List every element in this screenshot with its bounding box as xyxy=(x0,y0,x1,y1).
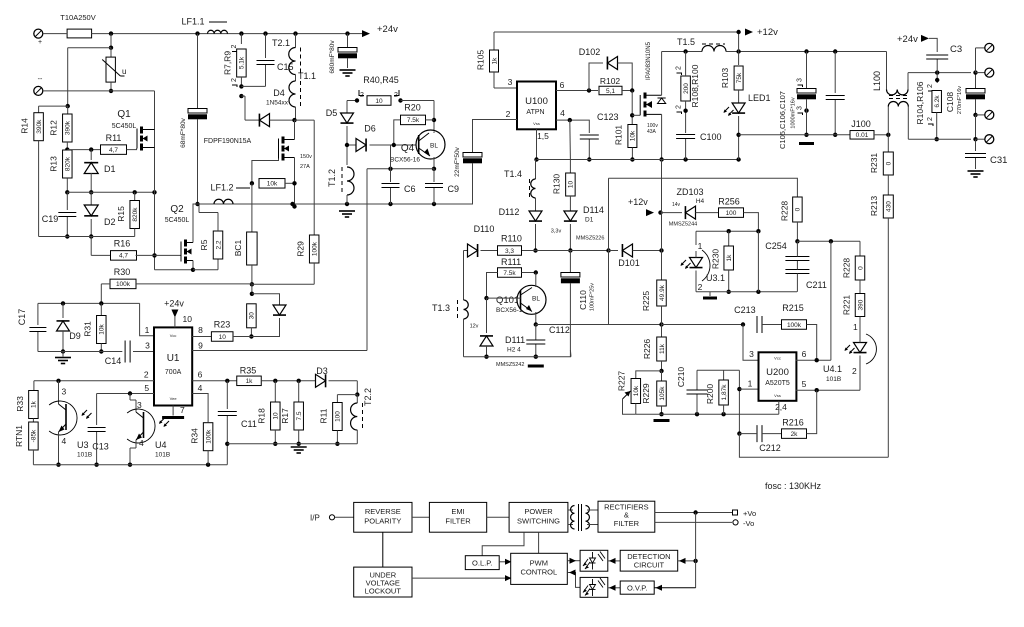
svg-text:R20: R20 xyxy=(404,103,421,113)
svg-text:12v: 12v xyxy=(470,324,479,330)
block DETECTION CIRCUIT xyxy=(620,550,678,571)
svg-text:RTN1: RTN1 xyxy=(14,425,24,447)
wire OLP to PWM xyxy=(499,561,505,563)
svg-text:2: 2 xyxy=(927,84,934,88)
wire tap column xyxy=(695,513,697,588)
svg-text:270mF*16v: 270mF*16v xyxy=(957,86,963,114)
svg-text:R256: R256 xyxy=(718,197,740,207)
wire pin3 row xyxy=(38,351,122,353)
resistor R31 10k xyxy=(100,303,102,316)
svg-text:C112: C112 xyxy=(549,325,570,335)
svg-text:C14: C14 xyxy=(105,356,122,366)
wire row 231 xyxy=(696,230,758,232)
svg-text:R225: R225 xyxy=(641,291,651,312)
svg-text:C9: C9 xyxy=(448,184,460,194)
svg-text:30: 30 xyxy=(249,312,256,320)
svg-text:R33: R33 xyxy=(15,396,25,412)
svg-text:14v: 14v xyxy=(672,202,681,208)
svg-text:1N54xx: 1N54xx xyxy=(266,100,289,107)
capacitor C11 xyxy=(226,381,228,409)
opto block 1 xyxy=(580,550,608,571)
svg-text:U4: U4 xyxy=(155,440,167,450)
resistor R103 75k xyxy=(738,52,740,66)
svg-text:C3: C3 xyxy=(950,44,962,55)
svg-text:R110: R110 xyxy=(501,234,522,244)
resistor R105 1k xyxy=(493,32,495,50)
svg-text:2: 2 xyxy=(676,105,683,109)
svg-text:LF1.2: LF1.2 xyxy=(210,183,233,193)
terminal out 3 xyxy=(976,114,985,116)
wire fuse node branch xyxy=(110,34,112,48)
wire opto2 to OVP xyxy=(608,587,620,589)
svg-text:68mF*80v: 68mF*80v xyxy=(180,117,187,147)
wire secondary rail y159 xyxy=(537,159,739,161)
svg-text:R7,R9: R7,R9 xyxy=(223,51,233,75)
svg-text:100mF*25v: 100mF*25v xyxy=(590,283,596,311)
svg-text:3: 3 xyxy=(797,78,804,82)
ground under C105 xyxy=(799,142,814,145)
svg-text:O.L.P.: O.L.P. xyxy=(472,559,492,568)
wire PWM to opto2 jog xyxy=(567,573,580,588)
resistor R14 390k xyxy=(34,113,44,141)
svg-text:D102: D102 xyxy=(579,47,601,57)
svg-text:Vss: Vss xyxy=(774,393,781,398)
wire IP to reverse polarity xyxy=(335,516,354,518)
svg-text:-Vo: -Vo xyxy=(743,519,754,528)
svg-text:R18: R18 xyxy=(257,408,267,424)
resistor R12 390k xyxy=(67,106,69,114)
wire gate node xyxy=(631,91,633,126)
ground below T1.2 xyxy=(339,210,355,212)
svg-text:I/P: I/P xyxy=(310,514,320,523)
svg-text:10: 10 xyxy=(183,314,193,324)
svg-text:Vcc: Vcc xyxy=(170,333,177,338)
svg-text:POWER: POWER xyxy=(524,507,553,516)
wire +12v node column xyxy=(738,32,740,52)
wire row +24v feed xyxy=(38,302,140,304)
block PWM CONTROL xyxy=(511,553,568,584)
svg-text:1: 1 xyxy=(698,241,703,251)
wire R11 to Q1 gate xyxy=(127,148,137,149)
svg-text:R213: R213 xyxy=(869,196,879,217)
svg-text:10k: 10k xyxy=(99,324,106,335)
block OVP xyxy=(620,581,654,594)
wire Q4 emitter node row xyxy=(367,168,434,170)
rail primary ground y204 xyxy=(193,203,474,205)
svg-text:5.1k: 5.1k xyxy=(239,56,246,69)
svg-text:7: 7 xyxy=(180,405,185,415)
block POWER SWITCHING xyxy=(509,502,568,532)
wire column 758 down xyxy=(757,231,759,292)
svg-text:R31: R31 xyxy=(83,321,93,337)
svg-text:FILTER: FILTER xyxy=(445,517,471,526)
svg-text:5: 5 xyxy=(144,383,149,393)
svg-text:3: 3 xyxy=(62,387,67,397)
svg-text:3: 3 xyxy=(797,106,804,110)
wire detection to tap column xyxy=(678,560,696,562)
svg-text:5,1: 5,1 xyxy=(606,88,615,95)
svg-text:ZD103: ZD103 xyxy=(676,187,703,197)
wire pin2,4 U200 xyxy=(778,401,780,414)
svg-text:100k: 100k xyxy=(312,241,319,256)
capacitor 68mF*80v electrolytic xyxy=(197,34,199,110)
wire OVP to tap column xyxy=(654,587,695,589)
svg-text:3: 3 xyxy=(508,77,513,87)
resistor R17 7,5 xyxy=(298,381,300,402)
wire IPA drain to T1.5 xyxy=(661,52,663,96)
svg-text:9: 9 xyxy=(198,341,203,351)
svg-text:R111: R111 xyxy=(501,257,521,267)
svg-text:2k: 2k xyxy=(791,431,799,438)
block RECTIFIERS FILTER xyxy=(598,501,655,532)
svg-text:390k: 390k xyxy=(36,119,43,134)
wire node row2 xyxy=(67,191,155,193)
svg-text:+: + xyxy=(38,39,42,46)
svg-text:6.2k: 6.2k xyxy=(934,95,941,108)
resistor R5 2,2 xyxy=(193,269,218,271)
svg-text:R104,R106: R104,R106 xyxy=(915,81,925,124)
svg-text:43A: 43A xyxy=(647,129,657,135)
wire row 370 to pin1 xyxy=(697,369,739,371)
svg-text:C17: C17 xyxy=(17,309,27,326)
svg-text:C13: C13 xyxy=(92,442,109,452)
svg-text:R103: R103 xyxy=(720,68,730,89)
svg-text:6: 6 xyxy=(198,370,203,380)
svg-text:R101: R101 xyxy=(614,125,624,146)
svg-text:7.5k: 7.5k xyxy=(407,117,420,124)
svg-text:fosc : 130KHz: fosc : 130KHz xyxy=(765,481,822,491)
svg-text:D111: D111 xyxy=(505,335,525,345)
svg-text:C123: C123 xyxy=(597,112,619,122)
terminal + input xyxy=(34,29,43,38)
wire node row3 xyxy=(39,236,135,238)
svg-text:10: 10 xyxy=(375,98,383,105)
svg-text:D112: D112 xyxy=(499,207,520,217)
svg-text:D101: D101 xyxy=(618,258,640,268)
svg-text:R226: R226 xyxy=(642,339,652,360)
svg-text:IPA083N10N5: IPA083N10N5 xyxy=(646,41,652,80)
svg-text:2: 2 xyxy=(231,78,238,82)
svg-text:MMSZ5242: MMSZ5242 xyxy=(496,362,524,368)
svg-text:PWM: PWM xyxy=(530,559,548,568)
resistor 10k gate xyxy=(250,181,254,185)
svg-text:R200: R200 xyxy=(705,384,715,405)
svg-text:D4: D4 xyxy=(273,88,285,98)
ground mid rail xyxy=(291,446,307,448)
resistor R15 820k xyxy=(134,192,136,202)
svg-text:T10A250V: T10A250V xyxy=(60,13,95,22)
svg-text:D6: D6 xyxy=(364,124,376,134)
svg-text:4,7: 4,7 xyxy=(119,253,128,260)
svg-text:C213: C213 xyxy=(734,305,756,315)
resistor R33 1k xyxy=(33,381,35,391)
capacitor 680mF*80v xyxy=(347,34,349,48)
wire PS to PWM xyxy=(538,532,540,553)
svg-text:--: -- xyxy=(38,76,43,83)
resistor R34 100k xyxy=(203,423,213,451)
svg-text:L100: L100 xyxy=(872,71,882,91)
svg-text:-85k: -85k xyxy=(31,429,38,442)
capacitor filter plain xyxy=(834,52,836,94)
svg-text:C11: C11 xyxy=(241,419,257,429)
wire bottom row 414 xyxy=(636,413,779,415)
svg-text:+12v: +12v xyxy=(628,197,648,207)
svg-text:D5: D5 xyxy=(326,108,338,118)
svg-text:4: 4 xyxy=(198,383,203,393)
svg-text:R227: R227 xyxy=(617,371,627,392)
svg-text:Q1: Q1 xyxy=(117,109,131,120)
svg-text:C212: C212 xyxy=(759,443,781,453)
wire row 250 connections xyxy=(521,250,535,252)
diode D9 xyxy=(62,303,64,318)
svg-text:1,5: 1,5 xyxy=(537,131,549,141)
svg-text:105k: 105k xyxy=(659,386,666,401)
ground C112 xyxy=(528,365,544,368)
svg-text:ATPN: ATPN xyxy=(526,109,544,116)
svg-text:C254: C254 xyxy=(765,241,787,251)
svg-text:1: 1 xyxy=(853,322,858,332)
wire row 178 to R228 xyxy=(609,178,798,197)
capacitor C31 xyxy=(975,139,977,151)
svg-text:D114: D114 xyxy=(583,205,604,215)
svg-text:D1: D1 xyxy=(585,217,594,224)
svg-text:0.01: 0.01 xyxy=(856,132,869,139)
wire column x608 down xyxy=(608,251,610,325)
svg-text:5C450L: 5C450L xyxy=(112,123,137,130)
resistor R11 100 xyxy=(337,394,357,396)
svg-text:820k: 820k xyxy=(65,156,72,171)
capacitor C14 xyxy=(124,341,126,363)
svg-text:0: 0 xyxy=(795,207,802,211)
terminal - input xyxy=(34,86,43,95)
wire UVLO to PWM xyxy=(412,577,506,579)
terminal -Vo xyxy=(733,520,738,525)
capacitor 22mF*50v xyxy=(473,120,518,153)
svg-text:100k: 100k xyxy=(205,429,212,444)
wire top rail +24v xyxy=(43,33,67,35)
svg-text:10k: 10k xyxy=(267,181,278,188)
svg-text:R130: R130 xyxy=(552,174,562,195)
wire row 292 xyxy=(696,291,797,293)
svg-text:D9: D9 xyxy=(69,331,81,341)
block REVERSE POLARITY xyxy=(354,502,412,532)
svg-text:T2.1: T2.1 xyxy=(272,38,290,48)
resistor R18 10 xyxy=(274,381,276,402)
svg-text:2: 2 xyxy=(676,66,683,70)
svg-text:BCX56-16: BCX56-16 xyxy=(390,157,420,164)
svg-text:430: 430 xyxy=(886,201,893,212)
svg-text:1k: 1k xyxy=(491,57,498,65)
svg-text:2,4: 2,4 xyxy=(775,402,787,412)
wire pin1 xyxy=(140,303,154,335)
varistor u xyxy=(110,48,112,57)
diode D1 xyxy=(90,150,92,160)
resistor 30 below BC1 xyxy=(251,284,253,294)
wire minus rail xyxy=(43,90,155,92)
svg-text:3,3v: 3,3v xyxy=(551,229,562,235)
wire EMI to PS xyxy=(487,516,509,518)
svg-text:2: 2 xyxy=(144,370,149,380)
capacitor C211 xyxy=(785,269,809,271)
svg-text:R14: R14 xyxy=(20,118,30,134)
wire +12v top xyxy=(494,31,739,33)
svg-text:BL: BL xyxy=(430,143,438,150)
resistor R11 4,7 xyxy=(101,145,127,155)
block UNDER VOLTAGE LOCKOUT xyxy=(354,567,412,597)
resistor RTN1 ~85k xyxy=(32,419,34,423)
svg-text:3: 3 xyxy=(749,349,754,359)
svg-text:LOCKOUT: LOCKOUT xyxy=(365,587,402,596)
block OLP xyxy=(465,556,499,570)
ground U3.1 xyxy=(709,292,711,296)
svg-text:1k: 1k xyxy=(726,254,733,262)
svg-text:R102: R102 xyxy=(600,76,621,86)
svg-text:R13: R13 xyxy=(49,156,59,172)
svg-text:22mF*50v: 22mF*50v xyxy=(454,146,461,176)
svg-text:150v: 150v xyxy=(300,154,312,160)
svg-text:8: 8 xyxy=(198,325,203,335)
svg-text:C108: C108 xyxy=(945,92,955,113)
transformer block symbol xyxy=(568,509,573,511)
wire IPA source to rail xyxy=(661,114,663,159)
svg-text:T2.2: T2.2 xyxy=(363,388,373,406)
svg-text:1: 1 xyxy=(145,325,150,335)
wire bottom row mid xyxy=(464,356,572,358)
diode parallel 30 xyxy=(252,294,280,305)
wire output bottom rail xyxy=(908,138,971,140)
svg-text:820k: 820k xyxy=(132,207,139,222)
svg-text:LED1: LED1 xyxy=(748,93,771,103)
svg-text:27A: 27A xyxy=(300,164,310,170)
svg-text:101B: 101B xyxy=(77,452,92,459)
svg-text:u: u xyxy=(122,67,126,76)
wire output terminal column xyxy=(975,48,977,73)
transformer T2.2 winding xyxy=(356,381,358,395)
svg-text:100: 100 xyxy=(726,210,737,217)
svg-text:101B: 101B xyxy=(826,376,841,383)
svg-text:T1.4: T1.4 xyxy=(504,169,522,179)
svg-text:C19: C19 xyxy=(42,214,59,224)
svg-text:R15: R15 xyxy=(116,206,126,222)
svg-text:T1.2: T1.2 xyxy=(327,169,337,187)
svg-text:3: 3 xyxy=(137,400,142,410)
svg-text:390k: 390k xyxy=(65,120,72,135)
svg-text:Q4: Q4 xyxy=(401,143,415,154)
IC U200 A520T5 xyxy=(759,352,797,401)
svg-text:U4.1: U4.1 xyxy=(823,364,842,374)
svg-text:+24v: +24v xyxy=(897,34,918,45)
svg-text:10: 10 xyxy=(219,334,227,341)
resistor R231 0 xyxy=(887,135,889,152)
ground pin7 xyxy=(172,406,174,416)
svg-text:100k: 100k xyxy=(787,322,802,329)
svg-text:CONTROL: CONTROL xyxy=(520,568,557,577)
svg-text:R11: R11 xyxy=(319,408,329,423)
svg-text:1000mF*16v: 1000mF*16v xyxy=(791,97,797,128)
wire bottom return xyxy=(739,434,888,458)
svg-text:1k: 1k xyxy=(31,400,38,408)
svg-text:R12: R12 xyxy=(49,120,59,136)
svg-text:D1: D1 xyxy=(104,164,116,174)
svg-text:LF1.1: LF1.1 xyxy=(181,17,204,27)
wire RP to UVLO xyxy=(382,532,384,567)
svg-text:C105,C106,C107: C105,C106,C107 xyxy=(778,91,787,149)
svg-text:H2 4: H2 4 xyxy=(507,347,521,354)
IC U1 700A xyxy=(154,327,192,405)
svg-text:R17: R17 xyxy=(280,408,290,424)
svg-text:C6: C6 xyxy=(404,184,416,194)
svg-text:R228: R228 xyxy=(842,258,852,279)
resistor R13 820k xyxy=(63,150,73,178)
wire emitter row to R225 xyxy=(536,324,662,326)
svg-text:T1.3: T1.3 xyxy=(432,303,450,313)
wire T column to D4 node xyxy=(295,119,315,121)
svg-text:R231: R231 xyxy=(869,153,879,174)
wire node row1 xyxy=(67,149,101,151)
svg-text:2: 2 xyxy=(927,117,934,121)
svg-text:R16: R16 xyxy=(114,239,131,249)
svg-text:1,87k: 1,87k xyxy=(721,384,728,401)
wire row 241 to R228 lower xyxy=(797,240,860,242)
svg-text:2: 2 xyxy=(506,109,511,119)
svg-text:4: 4 xyxy=(560,108,565,118)
svg-text:R105: R105 xyxy=(476,50,486,71)
svg-text:R34: R34 xyxy=(190,428,200,444)
svg-text:5: 5 xyxy=(802,379,807,389)
svg-text:0: 0 xyxy=(886,161,893,165)
capacitor BC1 xyxy=(251,183,253,232)
svg-text:+12v: +12v xyxy=(757,27,778,38)
svg-text:390: 390 xyxy=(857,299,864,310)
svg-text:100k: 100k xyxy=(116,281,131,288)
resistor R213 430 xyxy=(883,195,893,218)
svg-text:1k: 1k xyxy=(246,378,254,385)
+24v arrow label xyxy=(362,30,370,37)
resistor R101 10k xyxy=(628,125,637,148)
svg-text:O.V.P.: O.V.P. xyxy=(627,584,647,593)
svg-text:BL: BL xyxy=(532,296,540,303)
wire bottom rail left xyxy=(33,464,227,466)
svg-text:Q2: Q2 xyxy=(170,204,184,215)
svg-text:C211: C211 xyxy=(806,280,827,290)
svg-text:4: 4 xyxy=(62,436,67,446)
svg-text:R228: R228 xyxy=(780,201,790,222)
capacitor C13 xyxy=(96,394,98,426)
svg-text:3: 3 xyxy=(145,341,150,351)
svg-text:T1.1: T1.1 xyxy=(298,71,316,81)
svg-text:FILTER: FILTER xyxy=(614,519,640,528)
resistor R29 100k xyxy=(309,235,319,263)
svg-text:1: 1 xyxy=(748,379,753,389)
wire PWM to opto1 xyxy=(567,560,580,562)
svg-text:Vee: Vee xyxy=(170,396,178,401)
svg-text:10k: 10k xyxy=(633,385,640,396)
svg-text:U200: U200 xyxy=(766,367,789,378)
svg-text:11k: 11k xyxy=(659,343,666,354)
terminal out 4 xyxy=(976,138,985,140)
svg-text:7.5: 7.5 xyxy=(296,411,303,420)
ground under D9 xyxy=(62,352,64,357)
svg-text:5C450L: 5C450L xyxy=(165,217,190,224)
svg-text:49.9k: 49.9k xyxy=(659,284,666,301)
wire R14 feed row xyxy=(39,105,68,107)
wire U100 bottom pins xyxy=(536,129,538,159)
svg-text:U3: U3 xyxy=(77,440,89,450)
opto block 2 xyxy=(580,577,608,597)
svg-text:2: 2 xyxy=(231,44,238,48)
svg-text:200: 200 xyxy=(683,83,690,94)
diode D2 xyxy=(90,192,92,205)
